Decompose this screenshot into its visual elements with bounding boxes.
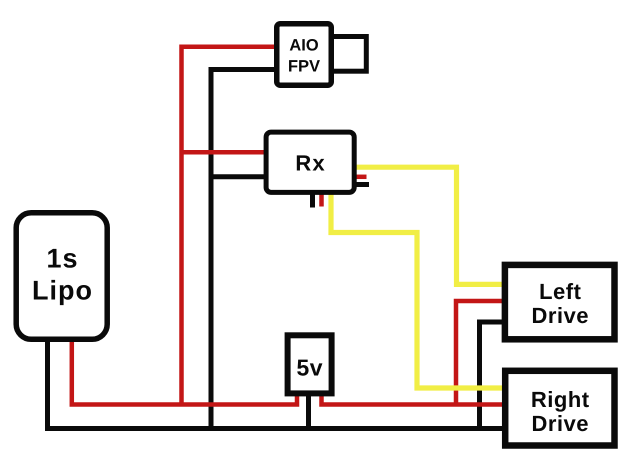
wire red Rx bottom pin stub xyxy=(319,192,324,207)
wire black battery negative bus: Lipo bottom to Right Drive xyxy=(48,336,508,429)
camera AIO FPV xyxy=(277,24,332,86)
motor driver Left Drive xyxy=(505,265,615,339)
wire red Rx supply branch xyxy=(182,150,273,155)
wire red AIO FPV supply: positive riser to AIO left xyxy=(182,47,281,405)
wire red Left Drive supply riser xyxy=(456,301,507,405)
motor driver Right Drive xyxy=(505,371,614,446)
wire red 5v output to Right Drive xyxy=(322,396,508,405)
wire black Rx ground branch xyxy=(211,174,272,179)
regulator 5v xyxy=(288,335,332,393)
wire yellow Rx signal to Right Drive xyxy=(331,192,507,388)
wire red battery positive: Lipo bottom to 5v bottom-left pin xyxy=(72,336,297,405)
battery 1s Lipo xyxy=(16,213,107,339)
wire black Rx right pin stub xyxy=(352,182,369,187)
wire red Rx right pin stub xyxy=(352,175,367,180)
wire black Left Drive ground xyxy=(480,322,508,429)
camera AIO FPV antenna tab xyxy=(328,37,366,72)
wire black AIO FPV ground: AIO left down to negative bus xyxy=(211,70,280,429)
wire yellow Rx signal to Left Drive xyxy=(352,167,507,284)
wire black 5v ground stub xyxy=(306,395,311,429)
receiver Rx xyxy=(266,132,354,192)
wire black Rx bottom pin stub xyxy=(310,192,315,208)
